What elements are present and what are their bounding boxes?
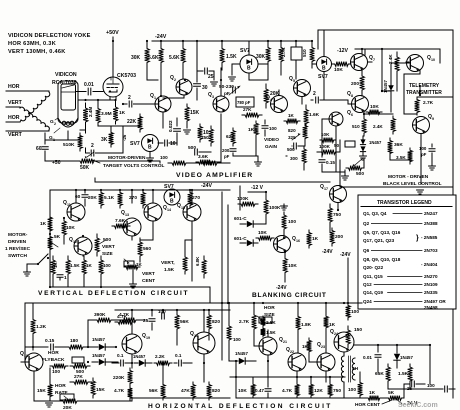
svg-text:200: 200 [222, 148, 230, 153]
svg-text:2N247: 2N247 [424, 211, 438, 216]
wires hor defl left [25, 346, 40, 348]
svg-text:510: 510 [352, 124, 360, 129]
wires [232, 63, 240, 65]
svg-text:1.8K: 1.8K [301, 322, 312, 328]
transistor Q20 [193, 332, 215, 354]
svg-text:100: 100 [351, 309, 359, 315]
transistor Q17 [330, 186, 347, 203]
svg-text:B: B [247, 66, 251, 72]
transistor Q1 [155, 96, 171, 112]
rail [229, 302, 362, 304]
svg-text:VERT: VERT [142, 271, 155, 277]
transistor Q10 [407, 55, 424, 72]
capacitor 60 [84, 190, 86, 193]
svg-text:pF: pF [224, 154, 230, 159]
wires blanking [284, 252, 286, 255]
svg-text:4H: 4H [352, 366, 359, 372]
svg-text:2N109: 2N109 [424, 282, 438, 287]
pot 500 black level [346, 166, 364, 171]
capacitor 2 [91, 150, 94, 156]
resistor 10K [332, 62, 351, 67]
svg-text:SV7: SV7 [318, 74, 328, 80]
svg-text:500: 500 [287, 147, 295, 152]
transistor Q7 [351, 54, 368, 71]
svg-text:1K: 1K [312, 236, 319, 242]
wires Q4 Q5 [267, 64, 269, 80]
transistor Q13 [123, 218, 141, 236]
wires telemetry [391, 62, 406, 64]
svg-text:TARGET VOLTS CONTROL: TARGET VOLTS CONTROL [103, 163, 164, 169]
svg-text:12K: 12K [314, 388, 323, 394]
svg-text:65K: 65K [375, 371, 384, 377]
svg-text:RATE: RATE [55, 390, 69, 396]
resistor 1.5K [408, 364, 413, 384]
svg-text:2: 2 [54, 122, 56, 126]
resistor 1.6K [304, 105, 309, 128]
svg-text:Q8, Q9, Q10, Q18: Q8, Q9, Q10, Q18 [363, 257, 401, 262]
svg-text:1K: 1K [329, 322, 336, 328]
capacitor 0.022 [176, 118, 178, 126]
transistor Q22 [288, 353, 306, 371]
resistor 100 [50, 364, 68, 369]
rail [115, 309, 230, 311]
svg-text:B: B [148, 145, 152, 151]
svg-text:VERT,: VERT, [161, 260, 175, 266]
resistor 510 [310, 41, 315, 68]
svg-text:500: 500 [103, 237, 111, 243]
svg-text:pF: pF [224, 91, 230, 97]
black level box bottom [340, 186, 453, 188]
resistor 820 [207, 382, 212, 400]
svg-text:0.1: 0.1 [175, 353, 182, 358]
svg-text:0.15: 0.15 [326, 160, 335, 165]
ground [283, 204, 285, 208]
resistor 200 [330, 228, 335, 246]
resistor 100 [99, 256, 104, 278]
svg-text:0.01: 0.01 [84, 82, 94, 88]
svg-text:750: 750 [201, 135, 209, 140]
svg-text:10K: 10K [288, 263, 297, 269]
svg-text:36K: 36K [394, 142, 403, 148]
section rail [230, 376, 345, 378]
svg-text:100: 100 [427, 383, 435, 388]
svg-text:1K: 1K [302, 344, 309, 349]
resistor 3K [109, 130, 114, 147]
svg-text:Q20- Q22: Q20- Q22 [363, 265, 384, 270]
capacitor 30 [196, 41, 198, 82]
capacitor 100 [440, 388, 443, 390]
resistor 20K [99, 190, 104, 208]
resistor 750 [328, 382, 333, 398]
resistor 3.9M [96, 105, 101, 126]
svg-text:SeekIC.com: SeekIC.com [398, 402, 438, 409]
svg-text:1K: 1K [288, 113, 295, 118]
svg-text:6: 6 [351, 113, 353, 117]
svg-text:1.6K: 1.6K [309, 112, 320, 118]
svg-text:1N457: 1N457 [383, 80, 388, 93]
svg-text:1K: 1K [40, 221, 47, 227]
svg-text:-12V: -12V [337, 48, 348, 54]
wires bottom mid [131, 354, 133, 363]
svg-text:- 2N585: - 2N585 [421, 235, 438, 240]
resistor 10K [256, 236, 274, 241]
svg-text:SWITCH: SWITCH [8, 253, 27, 259]
resistor 820 [207, 310, 212, 334]
svg-text:560: 560 [143, 246, 151, 252]
resistor 20K [264, 84, 269, 108]
svg-text:601-C: 601-C [234, 236, 247, 241]
resistor 2.5K [261, 316, 266, 327]
svg-text:6.8K: 6.8K [195, 256, 200, 266]
svg-text:9: 9 [432, 117, 434, 121]
wire [312, 63, 316, 65]
svg-text:820: 820 [288, 128, 296, 133]
resistor 27K [70, 380, 92, 385]
capacitor 0.1 [179, 360, 182, 366]
ground [132, 267, 134, 284]
ground [27, 263, 38, 265]
resistor 2.2K [154, 361, 172, 366]
svg-text:100: 100 [52, 369, 60, 375]
svg-text:2.7K: 2.7K [281, 47, 286, 57]
svg-text:1K: 1K [136, 262, 143, 267]
svg-text:Q17, Q21, Q23: Q17, Q21, Q23 [363, 238, 395, 243]
resistor 150 [346, 326, 351, 348]
svg-text:1.5K: 1.5K [398, 371, 409, 377]
resistor 2.7K [415, 97, 420, 115]
svg-text:12: 12 [73, 240, 77, 244]
svg-text:750: 750 [333, 388, 341, 394]
wires output stage [253, 303, 255, 312]
resistor 2.4M [83, 103, 88, 127]
svg-text:2.7K: 2.7K [423, 100, 434, 106]
resistor 30K [266, 41, 271, 68]
capacitor 0.47 [267, 384, 269, 387]
svg-text:13: 13 [125, 213, 129, 217]
resistor 3.6K [196, 160, 214, 165]
wires bias network [78, 99, 86, 101]
bottom rail output [236, 397, 345, 399]
svg-text:100K: 100K [319, 144, 331, 149]
svg-text:Q12: Q12 [363, 282, 372, 287]
resistor 100K [317, 150, 340, 155]
svg-text:1N457: 1N457 [133, 354, 146, 359]
resistor 10K [283, 255, 288, 276]
svg-text:1N457: 1N457 [92, 337, 105, 342]
svg-text:B: B [170, 199, 174, 205]
pot 5K [386, 396, 404, 401]
resistor 200 [360, 70, 365, 96]
resistor 36K [388, 138, 393, 156]
wire [377, 366, 379, 372]
svg-text:1K: 1K [369, 390, 376, 396]
resistor 100 [358, 380, 363, 398]
surge diode SV7 in circle [142, 135, 159, 152]
wires Q1-Q3 collectors [183, 95, 185, 98]
svg-text:500: 500 [188, 145, 196, 151]
resistor 100K [264, 192, 269, 222]
capacitor 500 [195, 149, 198, 155]
svg-text:2: 2 [91, 143, 94, 149]
wire [109, 97, 111, 100]
resistor 1K [307, 338, 312, 354]
svg-text:VIDICON: VIDICON [55, 72, 77, 78]
svg-text:10K: 10K [66, 225, 75, 231]
svg-text:BLANKING CIRCUIT: BLANKING CIRCUIT [252, 292, 327, 299]
svg-text:15K: 15K [96, 387, 105, 393]
resistor 2.4K [395, 52, 400, 76]
bottom rail vert defl [52, 278, 54, 287]
resistor 4.7K [128, 386, 133, 400]
resistor 6.8K [202, 256, 207, 278]
pot 820/325 [303, 123, 308, 141]
svg-text:15K: 15K [37, 388, 46, 394]
svg-text:5K: 5K [388, 390, 395, 396]
resistor 56K [161, 382, 166, 400]
cap 200pF [230, 149, 236, 152]
transistor Q21 [259, 337, 277, 355]
capacitor 60 [44, 133, 46, 144]
ground [257, 156, 259, 162]
svg-text:2.7K: 2.7K [239, 319, 250, 325]
capacitor 2 coupling [123, 103, 127, 105]
svg-text:300: 300 [290, 156, 298, 161]
resistor 1K [254, 121, 259, 137]
transistor Q5 [294, 80, 311, 97]
svg-text:Q11, Q15: Q11, Q15 [363, 274, 383, 279]
svg-text:23: 23 [321, 345, 325, 349]
svg-text:SV7: SV7 [164, 184, 174, 190]
svg-text:VIDEO: VIDEO [264, 137, 279, 143]
resistor 560 [138, 238, 143, 260]
resistor 1K [324, 314, 329, 330]
svg-text:2N270: 2N270 [424, 274, 438, 279]
svg-text:-24V: -24V [276, 285, 287, 291]
capacitor 0.1 [121, 360, 124, 366]
svg-text:1.5K: 1.5K [226, 54, 237, 60]
svg-text:50-230: 50-230 [219, 84, 234, 90]
svg-text:HOR 63MH, 0.3K: HOR 63MH, 0.3K [8, 41, 56, 47]
capacitor 1 [59, 278, 61, 280]
svg-text:pF: pF [421, 152, 427, 157]
transistor Q12 [74, 237, 92, 255]
riser stubs [252, 377, 254, 382]
svg-text:2: 2 [313, 91, 316, 97]
svg-text:4: 4 [270, 98, 272, 102]
svg-text:8: 8 [351, 94, 353, 98]
svg-text:1N457: 1N457 [400, 355, 413, 360]
capacitor 0.15 [321, 152, 323, 157]
svg-text:820: 820 [212, 319, 220, 325]
svg-text:50: 50 [334, 143, 340, 148]
svg-text:1K: 1K [119, 110, 126, 116]
svg-text:SV7: SV7 [130, 141, 140, 147]
svg-text:820: 820 [212, 388, 220, 394]
svg-text:Q5, Q7, Q13, Q16: Q5, Q7, Q13, Q16 [363, 230, 401, 235]
resistor 7.6K [112, 224, 130, 229]
svg-text:CENT: CENT [142, 278, 155, 284]
svg-text:SV7: SV7 [240, 48, 250, 54]
svg-text:2N497 OR: 2N497 OR [424, 299, 446, 304]
transistor Q4 [271, 96, 288, 113]
wire rail [209, 287, 211, 303]
svg-text:1: 1 [154, 96, 156, 100]
transistor Q2 [176, 79, 192, 95]
svg-text:2.5K: 2.5K [266, 320, 276, 325]
svg-text:VERT: VERT [8, 100, 23, 106]
svg-text:3K: 3K [101, 137, 108, 143]
svg-text:Q2: Q2 [363, 221, 370, 226]
resistor 180 [64, 345, 88, 350]
svg-text:100: 100 [103, 263, 111, 268]
svg-text:VERTICAL DEFLECTION CIRCUIT: VERTICAL DEFLECTION CIRCUIT [38, 290, 189, 297]
svg-text:20: 20 [194, 334, 198, 338]
svg-text:5.6K: 5.6K [148, 55, 159, 61]
resistor 100 [227, 322, 232, 344]
svg-text:-24V: -24V [322, 249, 333, 255]
wire riser [227, 205, 229, 303]
resistor 15K [91, 378, 96, 398]
svg-text:HOR: HOR [8, 84, 20, 90]
svg-text:390K: 390K [94, 312, 106, 318]
svg-text:Q1, Q3, Q4: Q1, Q3, Q4 [363, 211, 387, 216]
svg-text:SIZE: SIZE [102, 251, 113, 257]
svg-text:HOR: HOR [264, 305, 275, 311]
bottom rail [82, 400, 132, 402]
svg-text:20K: 20K [88, 195, 97, 201]
yoke winding X pattern [21, 92, 50, 121]
resistor 1K [307, 230, 312, 248]
switch arm [38, 254, 48, 264]
svg-text:TRANSMITTER: TRANSMITTER [406, 90, 442, 96]
svg-text:4.7K: 4.7K [114, 388, 125, 394]
svg-text:}: } [416, 235, 419, 242]
svg-text:MOTOR - DRIVEN: MOTOR - DRIVEN [388, 174, 429, 180]
svg-text:500: 500 [356, 171, 364, 177]
resistor 4.7K [118, 318, 140, 323]
svg-text:16: 16 [296, 239, 300, 243]
ground [46, 403, 53, 407]
svg-text:25: 25 [208, 74, 214, 80]
resistor 750 [328, 204, 333, 226]
svg-text:56K: 56K [149, 388, 158, 394]
pot 5K [48, 234, 53, 252]
resistor 220K [128, 368, 133, 386]
capacitor 10 [158, 142, 163, 144]
svg-text:1N457: 1N457 [235, 351, 248, 356]
svg-text:MOTOR-DRIVEN: MOTOR-DRIVEN [108, 155, 146, 161]
svg-text:150: 150 [354, 327, 362, 333]
svg-text:HOR: HOR [55, 383, 66, 389]
svg-text:1K: 1K [248, 127, 255, 133]
capacitor 25 [197, 70, 203, 72]
svg-text:14: 14 [167, 208, 171, 212]
resistor 5.6K [159, 41, 164, 70]
svg-text:HOR: HOR [48, 350, 59, 356]
svg-text:Q6: Q6 [363, 248, 370, 253]
horizontal section top rail [25, 302, 345, 304]
resistor 56K [175, 310, 180, 334]
resistor 1.5K [183, 254, 188, 274]
resistor [196, 161, 224, 166]
resistor 270 [141, 190, 146, 208]
resistor 10K [251, 382, 256, 398]
svg-text:FLYBACK: FLYBACK [42, 357, 65, 363]
transistor Q6 [329, 112, 343, 126]
svg-text:2.2K: 2.2K [155, 354, 165, 359]
svg-text:VIDICON DEFLECTION YOKE: VIDICON DEFLECTION YOKE [8, 33, 91, 39]
svg-text:100: 100 [160, 155, 168, 160]
wire [387, 384, 389, 389]
svg-text:HOR CENT: HOR CENT [355, 402, 380, 408]
svg-text:100: 100 [269, 126, 277, 131]
svg-text:10: 10 [170, 141, 176, 147]
resistor 1K [366, 396, 382, 401]
resistor [168, 161, 190, 166]
svg-text:1N457: 1N457 [92, 353, 105, 358]
pot 20K [58, 399, 82, 404]
resistor 1.2K [31, 315, 36, 338]
svg-text:601-C: 601-C [234, 216, 247, 221]
svg-text:2.4K: 2.4K [373, 124, 383, 129]
svg-text:5.6K: 5.6K [169, 55, 180, 61]
transistor Q23 [317, 353, 335, 371]
transistor legend box [358, 195, 456, 309]
svg-text:0.01: 0.01 [363, 355, 372, 360]
svg-text:11: 11 [67, 203, 71, 207]
transistor Q11 [67, 203, 85, 221]
resistor 270 [188, 190, 193, 208]
svg-text:5: 5 [293, 79, 295, 83]
resistor 2.7K [279, 41, 284, 68]
target volts control rail [98, 160, 160, 162]
svg-text:3.6K: 3.6K [198, 154, 209, 160]
cap 780pF box [236, 97, 254, 107]
resistor 65K [386, 364, 391, 384]
svg-text:510K: 510K [63, 142, 75, 148]
resistor 10K [62, 218, 67, 238]
resistor 1K [284, 119, 300, 124]
svg-text:-24V: -24V [155, 34, 167, 40]
svg-text:2N703: 2N703 [424, 248, 438, 253]
resistor 30K [145, 41, 150, 70]
resistor 100 [282, 212, 287, 232]
capacitor 100 [264, 120, 266, 124]
svg-text:750: 750 [333, 212, 341, 218]
transistor Q19 [122, 334, 142, 354]
resistor 5.6K [181, 41, 186, 70]
resistor 1K [48, 214, 53, 234]
trimmer box [291, 47, 302, 60]
resistor 100 [346, 303, 351, 320]
svg-text:24: 24 [334, 332, 338, 336]
svg-text:47K: 47K [181, 388, 190, 394]
transistor Q15 [183, 203, 201, 221]
transistor Q16 [274, 236, 291, 253]
svg-text:HORIZONTAL DEFLECTION CIRCUIT: HORIZONTAL DEFLECTION CIRCUIT [148, 403, 333, 410]
transistor Q8 [352, 96, 369, 113]
pot 500 [70, 364, 90, 369]
svg-text:15: 15 [181, 206, 185, 210]
cap 100pF [431, 144, 433, 147]
svg-text:25: 25 [143, 318, 149, 324]
output transformer 4H [341, 356, 344, 382]
capacitor 500 [294, 143, 297, 149]
svg-text:30K: 30K [256, 54, 266, 60]
svg-text:2: 2 [174, 78, 176, 82]
svg-text:27K: 27K [74, 374, 83, 380]
svg-text:0.47: 0.47 [255, 388, 264, 393]
